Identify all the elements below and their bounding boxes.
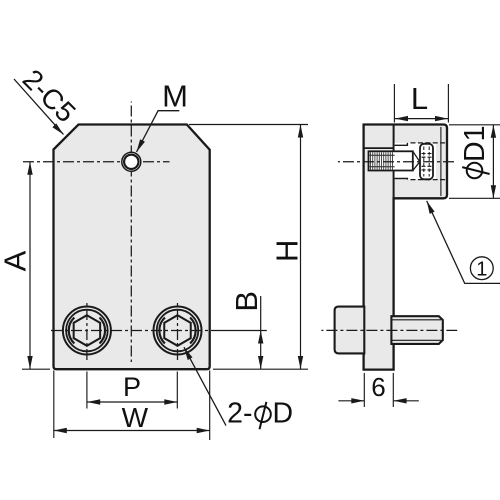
svg-text:M: M — [162, 79, 188, 114]
svg-text:P: P — [123, 372, 141, 402]
svg-text:2-: 2- — [227, 397, 252, 429]
svg-text:D: D — [273, 397, 294, 429]
svg-text:A: A — [0, 250, 33, 271]
svg-text:1: 1 — [476, 258, 487, 280]
svg-text:B: B — [229, 291, 264, 312]
svg-text:D1: D1 — [459, 126, 491, 162]
svg-text:H: H — [270, 240, 305, 262]
svg-text:6: 6 — [371, 372, 385, 402]
svg-text:W: W — [122, 402, 149, 433]
svg-text:L: L — [411, 81, 428, 116]
